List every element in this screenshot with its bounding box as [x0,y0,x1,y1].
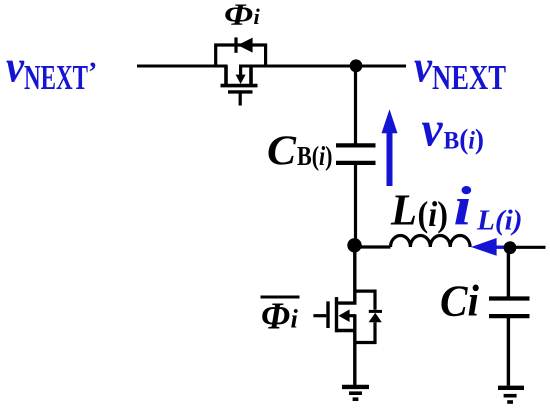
label vB(i) [422,100,485,156]
label Phi_i [224,0,261,32]
svg-text:C: C [267,129,297,175]
node A dot [350,59,363,72]
svg-text:i: i [254,4,261,29]
ground G1 left [342,387,369,399]
Q1 gate lead [239,93,242,106]
svg-text:v: v [422,100,444,156]
node C dot [504,241,517,254]
D1 triangle [238,38,253,53]
ground G2 right [498,388,524,402]
label iL(i) [454,176,523,237]
wire W4 CB to node B [354,165,357,245]
svg-text:v: v [6,41,25,92]
svg-text:(i): (i) [418,194,449,234]
capacitor CB(i) [336,145,376,163]
wire W5 node B to inductor [355,245,391,248]
D2 cathode bar [369,310,382,313]
wire W9 node B down to Q2 drain [337,245,355,303]
Q1 channel bar [221,84,258,88]
svg-text:L: L [390,186,417,235]
svg-text:L(i): L(i) [476,206,523,237]
svg-text:B(i): B(i) [297,141,333,171]
svg-text:v: v [414,41,433,92]
Q2 bulk arrow [349,314,356,317]
arrow iL blue left [471,238,497,256]
label vNEXT' [6,41,97,98]
label CB(i) [267,129,333,175]
wire W1 left rail [137,65,228,68]
diode D2 body diode loop [355,291,382,342]
diode D1 body diode loop [216,37,266,66]
node B dot [347,238,361,252]
svg-text:B(i): B(i) [444,124,485,156]
Q2 source vertical [353,314,356,385]
arrow vB blue up [382,109,398,186]
D1 cathode bar [234,37,237,52]
Q1 gate bar [228,90,253,93]
svg-text:i: i [291,304,299,334]
svg-text:NEXT: NEXT [432,58,506,97]
label L(i) [390,186,448,235]
svg-text:Φ: Φ [224,0,253,32]
wire W3 node A to CB [354,66,357,144]
svg-text:i: i [454,176,473,237]
Q1 drain leg [224,66,228,84]
svg-text:Φ: Φ [261,296,290,338]
label Phi_i bar [261,296,300,338]
Q2 gate bar [326,301,329,328]
wire W2 right rail [239,65,406,68]
wire W8 Ci to ground [507,318,510,386]
label vNEXT [414,41,506,98]
wire W6 node C right stub [510,246,546,249]
svg-text:Ci: Ci [440,277,480,326]
Q2 source contact [337,329,356,332]
Q2 gate lead [313,314,326,317]
wire W7 node C down to Ci [507,248,510,297]
Q1 bulk arrow [239,66,242,75]
D2 triangle [369,313,382,323]
Q1 source leg [249,66,253,84]
svg-text:’: ’ [88,58,97,89]
svg-text:NEXT: NEXT [24,58,88,97]
Q2 channel bar [335,297,338,332]
inductor L(i) [391,235,471,247]
transistor Q2 [313,297,355,385]
capacitor Ci [489,299,530,317]
transistor Q1 pass gate [221,66,258,106]
